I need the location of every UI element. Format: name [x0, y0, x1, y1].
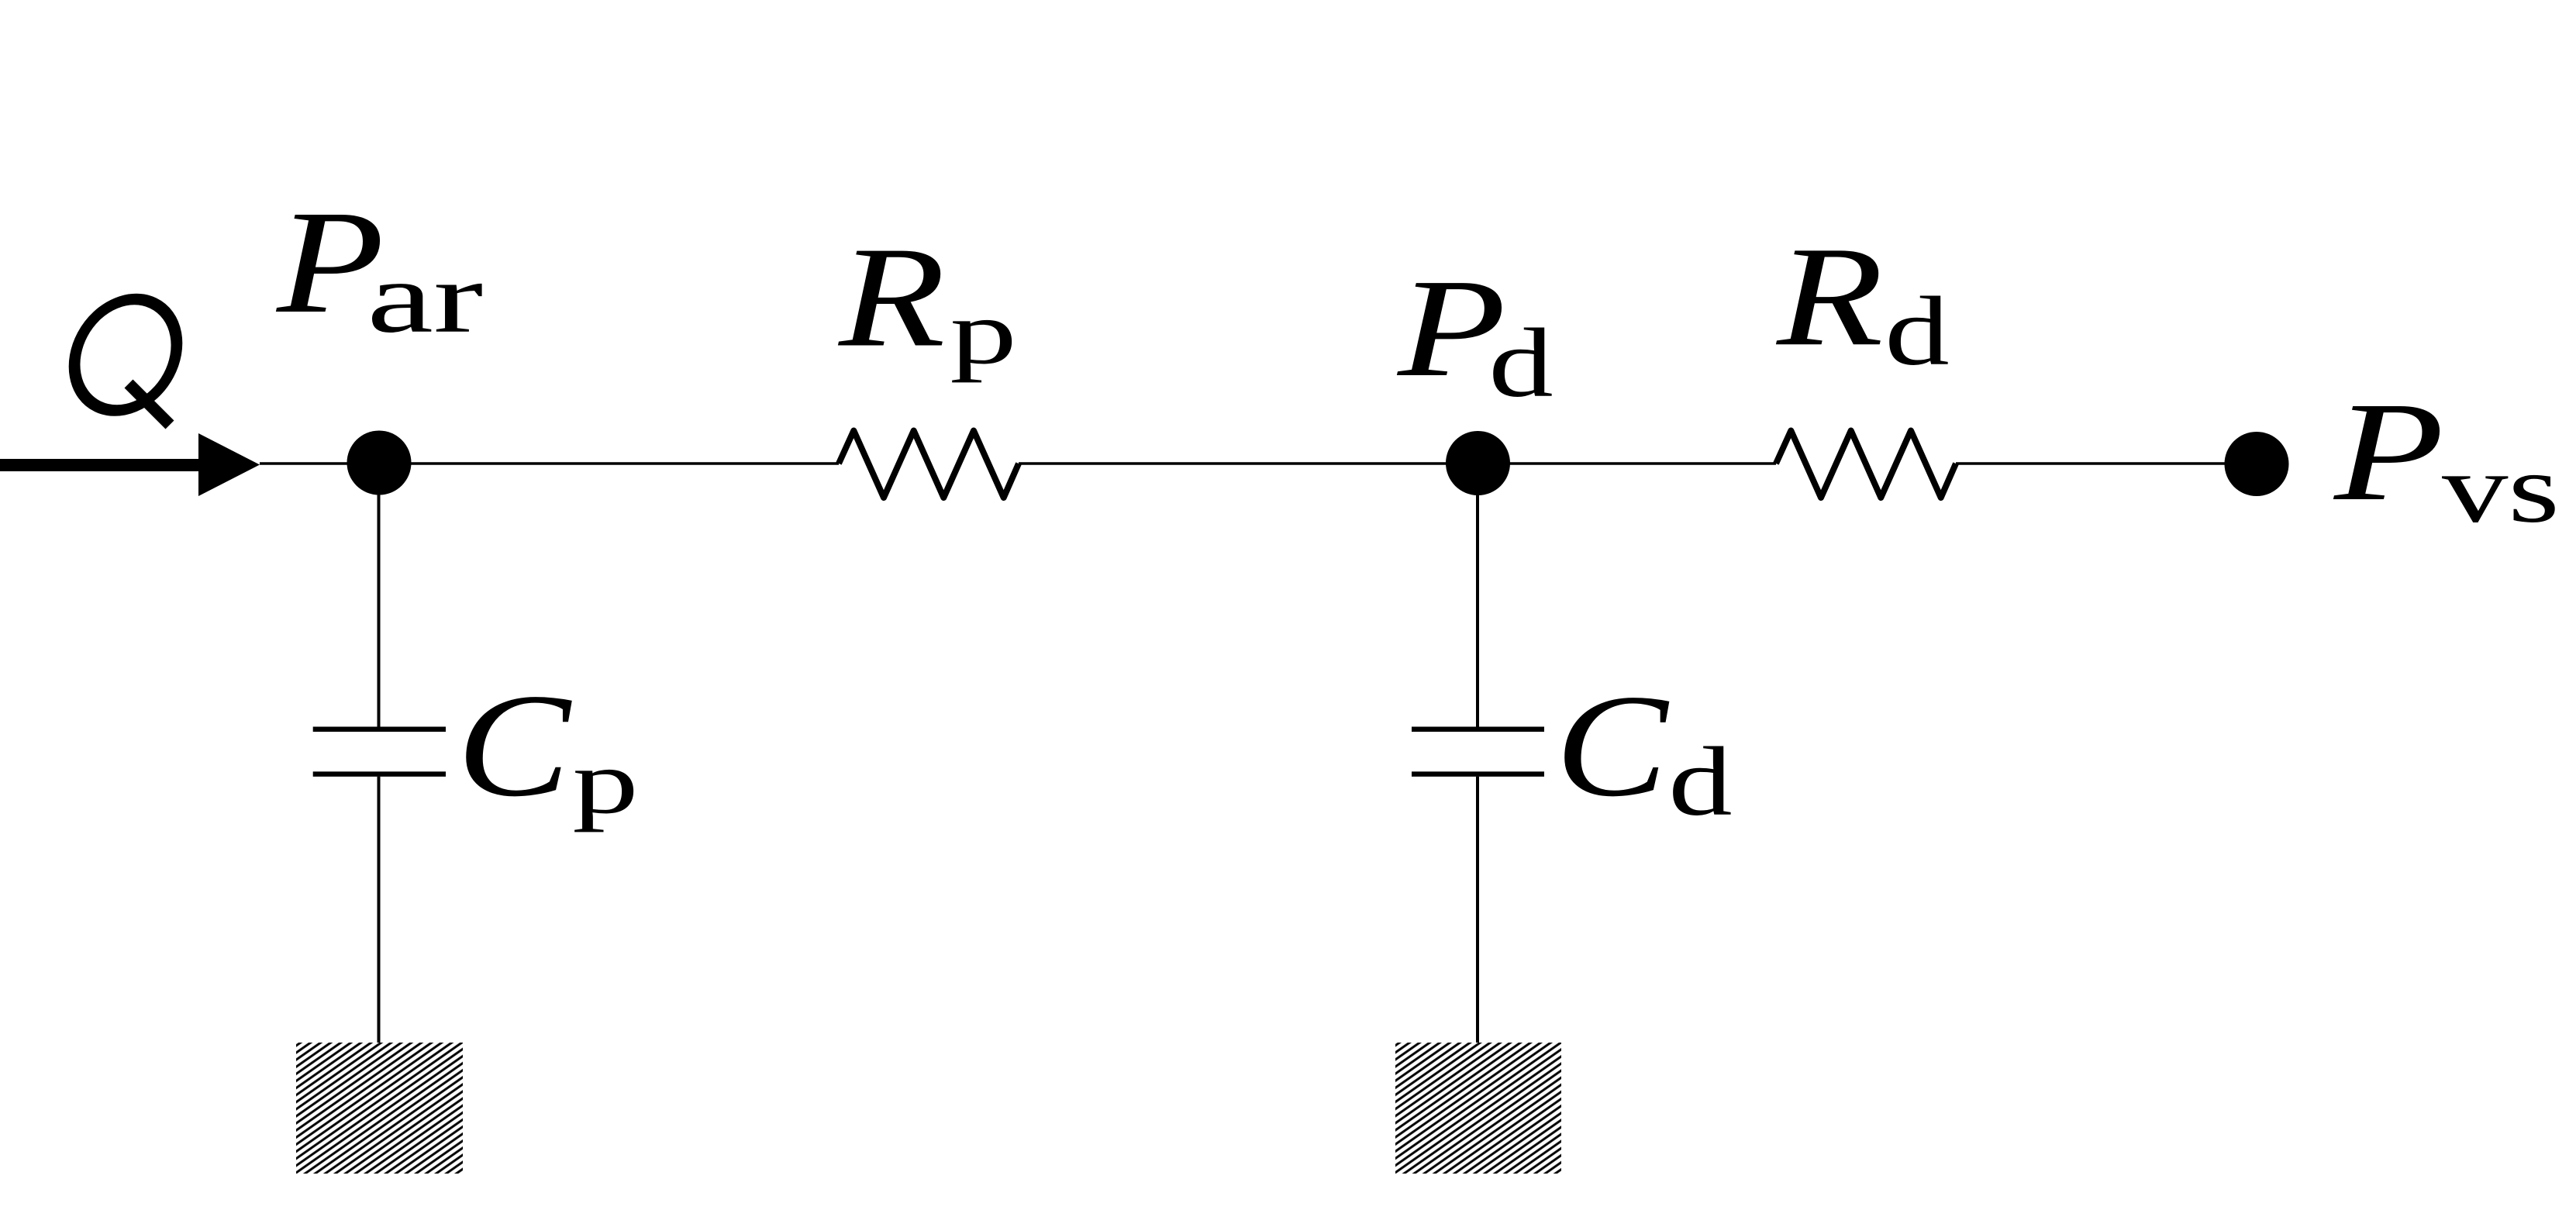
wire: from C_d down to ground: [1476, 777, 1479, 1043]
resistor R_p zigzag: [839, 431, 1019, 498]
node P_d junction dot: [1446, 431, 1510, 495]
wire: from R_p to node P_d: [1019, 462, 1478, 465]
arrowhead of input flow Q: [198, 433, 260, 496]
wire: from P_d to R_d: [1478, 462, 1776, 465]
svg-text:d: d: [1668, 727, 1732, 836]
capacitor C_p top plate: [313, 727, 446, 733]
node P_ar junction dot: [347, 431, 412, 495]
svg-text:R: R: [1775, 217, 1884, 376]
ground (hatched earth block) under C_d: [1395, 1043, 1561, 1174]
svg-text:C: C: [457, 663, 572, 827]
Q oval ring: [66, 299, 186, 411]
svg-text:R: R: [837, 217, 946, 377]
wire: input flow arrow shaft Q: [0, 459, 200, 471]
node P_vs terminal dot: [2225, 432, 2289, 496]
resistor R_d zigzag: [1776, 431, 1956, 498]
capacitor C_p bottom plate: [313, 771, 446, 777]
wire: main horizontal rail from arrow tip to R_p: [260, 462, 839, 465]
wire: from C_p down to ground: [378, 777, 381, 1043]
svg-text:C: C: [1555, 665, 1670, 828]
wire: from R_d to node P_vs: [1956, 462, 2257, 465]
svg-text:vs: vs: [2442, 434, 2560, 543]
wire: vertical from P_d down to capacitor C_d: [1476, 464, 1479, 727]
capacitor C_d top plate: [1412, 727, 1544, 733]
svg-text:P: P: [2333, 374, 2444, 530]
capacitor C_d bottom plate: [1412, 771, 1544, 777]
wire: vertical from P_ar down to capacitor C_p: [378, 464, 381, 727]
svg-text:p: p: [572, 731, 638, 833]
label Q: [66, 299, 186, 425]
Q tail bar: [129, 384, 170, 425]
svg-text:p: p: [950, 281, 1016, 382]
ground (hatched earth block) under C_p: [296, 1043, 463, 1174]
svg-text:d: d: [1885, 277, 1949, 385]
svg-text:d: d: [1488, 309, 1553, 417]
svg-text:ar: ar: [367, 241, 483, 353]
